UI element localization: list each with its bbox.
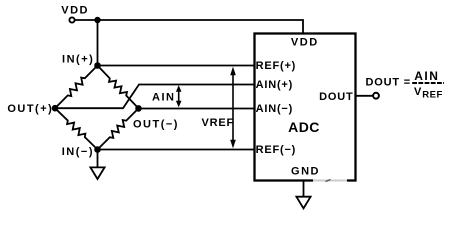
svg-text:AIN(−): AIN(−) [256,103,294,115]
label equation DOUT = AIN/VREF [366,69,445,101]
node OUT(-) [135,105,142,112]
wire GND to ground [303,181,305,197]
resistor bridge upper-left [55,66,98,109]
svg-text:OUT(−): OUT(−) [133,119,179,131]
wire OUT(+) to AIN(+) [55,85,254,109]
svg-text:DOUT =: DOUT = [366,76,411,88]
watermark fade on bottom edge [313,178,347,183]
svg-text:VREF: VREF [201,117,234,129]
svg-text:OUT(+): OUT(+) [7,103,53,115]
svg-text:VDD: VDD [61,5,89,17]
node OUT(+) [52,105,59,112]
svg-text:AIN(+): AIN(+) [256,79,294,91]
node IN(-) [94,146,101,153]
wire IN(-) to ground [97,150,99,168]
wire DOUT [356,95,373,97]
wire OUT(-) to AIN(-) [139,108,255,110]
svg-text:REF(−): REF(−) [256,144,297,156]
resistor bridge lower-left [55,108,98,149]
svg-text:V: V [414,86,422,98]
svg-text:IN(−): IN(−) [62,146,94,158]
svg-text:REF(+): REF(+) [256,60,297,72]
wire VDD to bridge top node [97,20,99,66]
arrow VREF measure [230,67,236,149]
svg-text:AIN: AIN [414,69,439,83]
arrow AIN measure [176,85,182,107]
svg-text:REF: REF [422,90,443,101]
op-amp ADC box [255,34,356,181]
wire VDD top rail [75,20,304,33]
wire REF(-) [98,149,255,151]
svg-text:VDD: VDD [291,37,319,49]
svg-text:DOUT: DOUT [319,91,353,103]
terminal VDD [69,17,74,22]
resistor bridge upper-right [98,66,139,109]
terminal DOUT [373,93,379,99]
svg-text:IN(+): IN(+) [62,54,94,66]
svg-text:ADC: ADC [288,119,320,135]
wire REF(+) [98,65,255,67]
svg-text:GND: GND [291,165,320,177]
junction dot VDD rail [94,17,100,23]
resistor bridge lower-right [98,108,139,149]
ground below IN(-) [90,167,104,179]
svg-text:AIN: AIN [152,92,175,104]
node IN(+) [94,62,101,69]
ground below GND [296,197,310,209]
